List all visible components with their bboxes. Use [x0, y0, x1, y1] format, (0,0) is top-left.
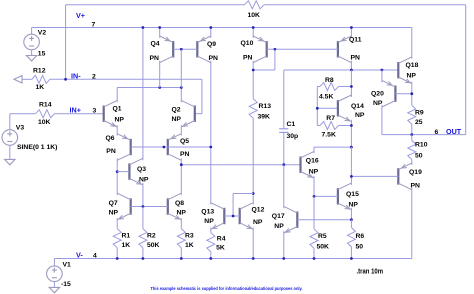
wire Q2 emitter to Q5: [180, 125, 182, 136]
transistor Q18 label: [406, 62, 419, 69]
wire base drop to Q2 collector: [180, 49, 182, 87]
wire Q11 emitter: [350, 28, 352, 38]
wire feedback top left: [66, 4, 245, 6]
wire Q3 base: [117, 171, 129, 173]
wire feedback top right: [264, 4, 466, 6]
svg-text:Q18: Q18: [406, 62, 419, 69]
svg-text:Q11: Q11: [349, 37, 362, 44]
wire Q1 collector: [116, 88, 118, 103]
R10 label: [415, 142, 428, 149]
svg-text:NP: NP: [355, 112, 365, 119]
net label OUT: [446, 127, 462, 136]
wire IN- row: [50, 78, 202, 80]
svg-text:R7: R7: [326, 115, 335, 122]
junction V+ rail Q10: [252, 26, 255, 29]
wire V+ to Q3 collector: [142, 28, 144, 161]
junction Q15 emitter R6: [350, 218, 353, 221]
net label IN-: [71, 71, 81, 80]
resistor R10: [408, 141, 416, 160]
pin 4 label: [93, 252, 97, 259]
transistor Q6 label: [106, 135, 115, 142]
transistor Q18 model: [407, 73, 417, 80]
wire Q5C-Q16 base row: [181, 164, 300, 166]
svg-text:R4: R4: [217, 235, 226, 242]
transistor Q4 label: [151, 40, 160, 47]
svg-text:Q14: Q14: [351, 103, 364, 110]
transistor Q14 label: [351, 103, 364, 110]
svg-text:Q9: Q9: [207, 41, 216, 48]
wire Q10 emitter: [252, 28, 254, 38]
wire R13 to Q12 collector: [252, 118, 254, 204]
wire Q10 base drop: [274, 49, 276, 70]
svg-text:50K: 50K: [317, 243, 330, 250]
wire C1 bottom: [283, 132, 285, 164]
svg-text:7: 7: [92, 21, 96, 28]
wire Q17 emitter to rail: [283, 231, 285, 258]
wire Q10-Q11 base: [267, 48, 338, 50]
junction Q15 base R5: [313, 195, 316, 198]
pin 3 label: [93, 107, 97, 114]
wire R7 left: [317, 125, 320, 127]
svg-text:Q17: Q17: [272, 213, 285, 220]
transistor Q11 label: [349, 37, 362, 44]
R8 value: [319, 93, 333, 100]
wire Q9 emitter: [210, 28, 212, 38]
svg-text:IN+: IN+: [70, 105, 81, 114]
svg-text:Q16: Q16: [306, 157, 319, 164]
R14 value: [38, 119, 51, 126]
svg-text:Q10: Q10: [241, 40, 254, 47]
junction V- rail R3: [180, 257, 183, 260]
svg-text:Q20: Q20: [371, 91, 384, 98]
wire R8-R7 left link: [316, 87, 318, 126]
svg-text:NP: NP: [253, 219, 263, 226]
svg-text:R1: R1: [122, 233, 131, 240]
junction V- rail R5: [313, 257, 316, 260]
wire Q17 collector: [283, 165, 285, 209]
transistor Q2 model: [172, 116, 182, 123]
svg-text:R8: R8: [325, 77, 334, 84]
svg-text:PN: PN: [351, 54, 361, 61]
transistor Q13: [211, 203, 225, 230]
svg-text:Q15: Q15: [346, 191, 359, 198]
capacitor C1: [279, 129, 288, 133]
wire Q16 collector row: [314, 146, 351, 148]
svg-text:.tran 10m: .tran 10m: [357, 269, 384, 276]
wire R2 top: [142, 207, 144, 229]
junction V- rail R4: [209, 257, 212, 260]
wire Q13 emitter to R4: [210, 227, 212, 232]
wire R2 to rail: [142, 248, 144, 259]
ground flag arrow left of R12: [14, 76, 22, 83]
transistor Q17 model: [274, 223, 284, 230]
wire V1 to rail: [53, 259, 55, 266]
wire IN- down to Q2 base: [201, 79, 203, 113]
wire Q20 base: [395, 93, 411, 95]
wire R5 to rail: [313, 248, 315, 258]
svg-text:7.5K: 7.5K: [322, 132, 336, 139]
wire Q4 emitter: [159, 28, 161, 38]
svg-text:V1: V1: [63, 261, 72, 268]
junction V+ rail Q11: [350, 26, 353, 29]
junction V+ rail Q9: [209, 26, 212, 29]
wire Q8 emitter to R3: [180, 218, 182, 229]
wire R5 top: [313, 196, 315, 228]
transistor Q11: [338, 36, 352, 63]
wire Q4-Q9 base: [173, 48, 197, 50]
transistor Q12 label: [252, 207, 265, 214]
transistor Q20: [382, 80, 396, 107]
transistor Q19 model: [411, 182, 421, 189]
wire V2 to rail: [31, 28, 33, 35]
wire Q8 collector: [180, 165, 182, 195]
svg-text:Q3: Q3: [137, 166, 146, 173]
ground below V1: [49, 287, 59, 292]
wire OUT row: [382, 134, 466, 136]
wire V1 to ground: [53, 282, 55, 288]
pin 6 label: [435, 129, 439, 136]
transistor Q13 model: [204, 218, 214, 225]
svg-text:R5: R5: [318, 233, 327, 240]
voltage source V1 label: [63, 261, 72, 268]
wire Q16 collector up: [313, 147, 315, 153]
transistor Q7 model: [109, 209, 119, 216]
ground below V2: [26, 56, 36, 61]
wire Q11 collector: [350, 61, 352, 70]
svg-text:V3: V3: [16, 124, 25, 131]
resistor R3: [177, 229, 185, 248]
svg-text:R12: R12: [33, 68, 46, 75]
svg-text:OUT: OUT: [446, 127, 462, 136]
transistor Q5 label: [180, 138, 189, 145]
directive .tran: [357, 269, 384, 276]
transistor Q20 label: [371, 91, 384, 98]
wire R8 right: [339, 86, 352, 88]
wire Q10 collector to R13: [252, 61, 254, 99]
wire IN+ row: [55, 113, 105, 115]
transistor Q8 label: [175, 200, 184, 207]
transistor Q1: [104, 100, 118, 127]
transistor Q18: [398, 57, 412, 84]
junction Q12-Q13 base: [232, 215, 235, 218]
voltage source V2: [24, 34, 40, 50]
svg-text:PN: PN: [209, 55, 219, 62]
wire Q19 collector to V- rail: [411, 188, 413, 259]
wire R10 bottom: [411, 160, 413, 166]
R10 value: [415, 153, 423, 160]
R2 value: [147, 242, 160, 249]
svg-text:Q6: Q6: [106, 135, 115, 142]
R7 value: [322, 132, 336, 139]
junction base row dot: [163, 146, 166, 149]
svg-text:IN-: IN-: [71, 71, 81, 80]
transistor Q7: [117, 193, 131, 220]
junction Q3 base tap: [116, 170, 119, 173]
junction Q11 collector node: [350, 69, 353, 72]
R9 value: [415, 119, 423, 126]
net label IN+: [70, 105, 81, 114]
wire Q4 collector: [159, 61, 161, 88]
transistor Q19 label: [409, 169, 422, 176]
svg-text:NP: NP: [109, 209, 119, 216]
wire arrow to R12: [22, 78, 32, 80]
transistor Q7 label: [109, 200, 118, 207]
svg-text:NP: NP: [139, 177, 149, 184]
svg-text:PN: PN: [106, 148, 116, 155]
svg-text:1K: 1K: [185, 242, 194, 249]
wire R4 to rail: [210, 252, 212, 259]
wire Q20 collector down: [381, 105, 383, 135]
resistor R12: [32, 75, 50, 83]
junction V+ rail x143: [142, 26, 145, 29]
svg-text:V-: V-: [76, 250, 83, 259]
wire Q6 collector down: [116, 158, 118, 195]
transistor Q9: [197, 36, 211, 63]
wire Q17 base row: [297, 219, 351, 221]
junction C1 bottom Q17 collector: [282, 163, 285, 166]
wire Q18 emitter to R9: [411, 82, 413, 106]
R12 label: [33, 68, 46, 75]
resistor R5: [310, 229, 318, 249]
svg-text:1K: 1K: [122, 242, 131, 249]
wire Q7 emitter to R1: [116, 218, 118, 229]
svg-text:R10: R10: [415, 142, 428, 149]
svg-text:This example schematic is supp: This example schematic is supplied for i…: [151, 286, 303, 291]
wire Q16 emitter: [313, 176, 315, 196]
svg-text:50K: 50K: [147, 242, 160, 249]
transistor Q16 model: [309, 168, 319, 175]
R4 value: [216, 245, 225, 252]
transistor Q10 label: [241, 40, 254, 47]
transistor Q13 label: [201, 208, 214, 215]
wire Q5-Q6 base row: [131, 146, 211, 148]
voltage source V1: [47, 266, 63, 282]
junction Q2 collector node: [180, 86, 183, 89]
svg-text:C1: C1: [287, 121, 296, 128]
resistor R11 10K feedback: [245, 1, 265, 9]
wire into Q2 base: [195, 113, 202, 115]
junction IN- node: [64, 78, 67, 81]
wire Q15 emitter: [350, 208, 352, 220]
R6 value: [356, 244, 364, 251]
wire R8 left: [317, 86, 320, 88]
R5 label: [318, 233, 327, 240]
svg-text:NP: NP: [309, 168, 319, 175]
transistor Q6: [117, 134, 131, 161]
svg-text:4.5K: 4.5K: [319, 93, 333, 100]
wire Q7-Q8 base row: [131, 206, 168, 208]
wire Q14 base: [317, 107, 338, 109]
svg-text:NP: NP: [204, 218, 214, 225]
svg-text:30p: 30p: [287, 133, 299, 140]
svg-text:Q8: Q8: [175, 200, 184, 207]
junction Q20 emitter node: [381, 69, 384, 72]
junction Q4 collector node: [158, 86, 161, 89]
wire V+ rail: [32, 27, 412, 29]
voltage source V2 label: [38, 29, 47, 36]
wire Q20 emitter up: [381, 70, 383, 82]
transistor Q10 model: [243, 55, 253, 62]
net label V+: [76, 11, 85, 20]
wire bias row y70: [284, 69, 399, 71]
svg-text:R14: R14: [39, 101, 52, 108]
transistor Q19: [398, 163, 412, 190]
voltage source V3 label: [16, 124, 25, 131]
transistor Q10: [253, 36, 267, 63]
transistor Q6 model: [106, 148, 116, 155]
transistor Q9 model: [209, 55, 219, 62]
wire C1 top: [283, 70, 285, 129]
svg-text:R2: R2: [147, 233, 156, 240]
voltage source V3: [2, 130, 18, 146]
junction OUT node: [410, 133, 413, 136]
junction V- rail Q12 emitter: [252, 257, 255, 260]
wire Q3 emitter: [142, 183, 144, 207]
transistor Q17: [284, 206, 298, 233]
R8 label: [325, 77, 334, 84]
junction Q16 collector node: [350, 146, 353, 149]
R13 value: [258, 114, 271, 121]
svg-text:Q5: Q5: [180, 138, 189, 145]
junction Q12 collector: [252, 192, 255, 195]
wire R3 to rail: [180, 248, 182, 259]
transistor Q8: [168, 193, 182, 220]
svg-text:Q7: Q7: [109, 200, 118, 207]
R6 label: [356, 233, 365, 240]
svg-text:10K: 10K: [38, 119, 51, 126]
resistor R13: [249, 99, 257, 119]
transistor Q1 label: [113, 106, 122, 113]
svg-text:Q1: Q1: [113, 106, 122, 113]
svg-text:1K: 1K: [36, 84, 45, 91]
transistor Q20 model: [373, 100, 383, 107]
junction Q7 base R2: [142, 205, 145, 208]
wire Q12 emitter to rail: [252, 227, 254, 258]
svg-text:Q12: Q12: [252, 207, 265, 214]
wire feedback right vertical: [465, 5, 467, 135]
R14 label: [39, 101, 52, 108]
junction Q5-Q8 collectors: [180, 163, 183, 166]
transistor Q12 model: [253, 219, 263, 226]
svg-text:25: 25: [415, 119, 423, 126]
svg-text:PN: PN: [180, 151, 190, 158]
junction V- rail Q17 emitter: [282, 257, 285, 260]
svg-text:NP: NP: [274, 223, 284, 230]
transistor Q2 label: [172, 107, 181, 114]
transistor Q5 model: [180, 151, 190, 158]
R3 label: [185, 233, 194, 240]
transistor Q15 label: [346, 191, 359, 198]
svg-text:SINE(0 1 1K): SINE(0 1 1K): [17, 144, 57, 151]
svg-text:PN: PN: [150, 55, 160, 62]
transistor Q14: [338, 95, 352, 122]
R1 value: [122, 242, 131, 249]
ground below V3: [5, 159, 15, 164]
wire Q12 collector to base L1: [233, 193, 253, 195]
R13 label: [259, 103, 272, 110]
R7 label: [326, 115, 335, 122]
svg-text:V+: V+: [76, 11, 85, 20]
transistor Q2: [181, 100, 195, 127]
R12 value: [36, 84, 45, 91]
transistor Q3 label: [137, 166, 146, 173]
junction Q10 collector: [252, 69, 255, 72]
wire Q14E to Q15C: [350, 147, 352, 185]
wire Q5 collector: [180, 158, 182, 164]
svg-text:2: 2: [92, 73, 96, 80]
svg-text:10K: 10K: [248, 12, 261, 19]
svg-text:Q4: Q4: [151, 40, 160, 47]
junction Q20 base: [410, 92, 413, 95]
transistor Q3: [129, 158, 143, 185]
R1 label: [122, 233, 131, 240]
wire R9 to OUT: [411, 124, 413, 134]
svg-text:R13: R13: [259, 103, 272, 110]
svg-text:PN: PN: [243, 55, 253, 62]
svg-text:39K: 39K: [258, 114, 271, 121]
wire rail to Q18 collector: [411, 28, 413, 59]
wire Q13-Q12 base: [224, 215, 239, 217]
junction R8 right: [350, 85, 353, 88]
junction R7 right: [350, 124, 353, 127]
R4 label: [217, 235, 226, 242]
svg-text:Q2: Q2: [172, 107, 181, 114]
wire Q15 base: [314, 195, 338, 197]
transistor Q15 model: [349, 202, 359, 209]
wire Q1-Q2 collector row: [117, 87, 181, 89]
junction Q9-Q13 collector: [209, 146, 212, 149]
wire Q14 collector: [350, 70, 352, 97]
transistor Q15: [338, 183, 352, 210]
svg-text:NP: NP: [407, 73, 417, 80]
transistor Q5: [168, 134, 182, 161]
wire V3 top: [9, 114, 11, 130]
transistor Q9 label: [207, 41, 216, 48]
R2 label: [147, 233, 156, 240]
transistor Q16 label: [306, 157, 319, 164]
transistor Q12: [240, 203, 254, 230]
transistor Q4: [160, 36, 174, 63]
wire Q14 emitter: [350, 120, 352, 147]
transistor Q17 label: [272, 213, 285, 220]
R9 label: [415, 110, 424, 117]
wire feedback left vertical: [65, 5, 67, 80]
junction Q19 base tap: [350, 175, 353, 178]
transistor Q1 model: [115, 117, 125, 124]
svg-text:50: 50: [415, 153, 423, 160]
resistor R9: [408, 105, 416, 124]
svg-text:V2: V2: [38, 29, 47, 36]
wire Q10 base to collector: [253, 69, 275, 71]
svg-text:R3: R3: [185, 233, 194, 240]
transistor Q4 model: [150, 55, 160, 62]
R5 value: [317, 243, 330, 250]
resistor R2: [139, 229, 147, 248]
svg-text:NP: NP: [177, 209, 187, 216]
svg-text:Q19: Q19: [409, 169, 422, 176]
transistor Q3 model: [139, 177, 149, 184]
net label V-: [76, 250, 83, 259]
svg-text:15: 15: [38, 50, 46, 57]
svg-text:R9: R9: [415, 110, 424, 117]
svg-text:-15: -15: [61, 281, 71, 288]
wire V- rail: [54, 258, 411, 260]
svg-text:4: 4: [93, 252, 97, 259]
resistor R7: [320, 122, 339, 130]
junction V- rail R6: [350, 257, 353, 260]
svg-text:50: 50: [356, 244, 364, 251]
wire R10 to Q19 emitter: [411, 135, 413, 141]
